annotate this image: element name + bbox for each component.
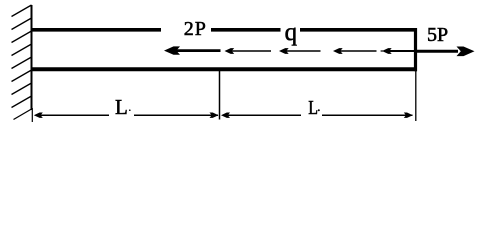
hatch 1 [12, 5, 32, 17]
hatch 5 [12, 57, 32, 69]
force arrow 2P (points left) [164, 46, 221, 54]
dimension arrow span1 right (points right) [210, 113, 219, 118]
svg-text:q: q [285, 19, 298, 46]
beam bottom edge [31, 67, 417, 71]
hatch 3 [12, 31, 32, 43]
hatch 6 [12, 70, 32, 82]
dimension arrow span1 left (points left) [34, 113, 43, 118]
speck after L1 [129, 109, 131, 111]
dimension arrow span2 left (points left) [221, 113, 230, 118]
beam top edge segment left [31, 28, 161, 32]
svg-text:2P: 2P [184, 18, 207, 40]
hatch 9 [14, 109, 32, 120]
wall hatching [12, 5, 32, 120]
force arrow 5P (points right) [414, 47, 475, 57]
fixed support wall line [31, 5, 33, 110]
distributed load arrow q3 [333, 48, 377, 54]
svg-text:5P: 5P [427, 24, 448, 46]
speck after L2 [318, 109, 320, 111]
extension line middle [219, 71, 221, 120]
dimension line span 2 right part [322, 114, 413, 116]
distributed load arrow q2 [279, 48, 321, 54]
hatch 2 [12, 18, 32, 30]
dimension line span 1 left part [36, 114, 109, 116]
extension line below right end [415, 71, 417, 121]
beam top edge segment right [300, 28, 417, 32]
hatch 4 [12, 44, 32, 56]
distributed load arrow q4 [381, 48, 417, 54]
hatch 8 [12, 96, 32, 108]
beam right end edge [414, 28, 417, 71]
svg-text:L: L [115, 95, 128, 119]
hatch 7 [12, 83, 32, 95]
beam top edge segment middle [211, 28, 281, 32]
dimension line span 1 right part [134, 114, 218, 116]
distributed load arrow q1 [225, 48, 272, 54]
extension line below wall [31, 108, 33, 122]
svg-text:L: L [308, 97, 318, 119]
dimension line span 2 left part [228, 114, 301, 116]
dimension arrow span2 right (points right) [404, 113, 413, 118]
